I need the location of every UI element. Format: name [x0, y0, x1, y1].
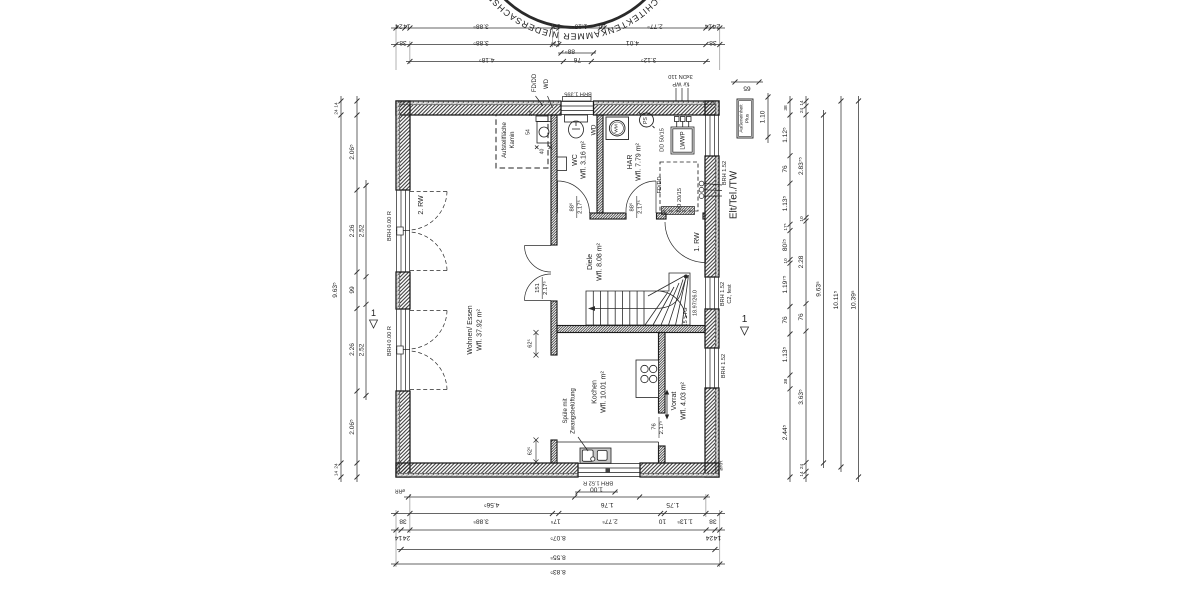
doors [410, 181, 706, 390]
dim chain right R5 [858, 96, 860, 482]
svg-text:24: 24 [712, 23, 720, 30]
svg-text:Kamin: Kamin [510, 131, 516, 148]
svg-text:BRH 1.52: BRH 1.52 [720, 282, 726, 306]
label door WC 88.5/2.17 [569, 200, 584, 214]
svg-text:24: 24 [334, 109, 340, 115]
svg-text:17⁵: 17⁵ [550, 39, 560, 46]
svg-text:18.97/26.0: 18.97/26.0 [693, 290, 699, 316]
svg-text:Plus: Plus [745, 113, 751, 123]
labels bottom B2 [399, 518, 717, 525]
svg-text:BRH 1.52 R: BRH 1.52 R [583, 480, 613, 486]
svg-text:76: 76 [573, 56, 581, 63]
stamp circle Architektenkammer [468, 0, 682, 42]
svg-text:WD: WD [591, 124, 598, 135]
stairs [586, 273, 690, 325]
svg-text:Spüle mit: Spüle mit [563, 398, 569, 423]
svg-text:38: 38 [709, 518, 717, 525]
Elt/Tel/TW wall sleeves [699, 181, 722, 198]
svg-text:14: 14 [334, 102, 340, 108]
walking line with arrow [591, 279, 686, 309]
svg-text:Vorrat: Vorrat [671, 392, 678, 411]
labels top row A [395, 23, 720, 30]
window right B C2 fest [705, 277, 719, 309]
svg-text:PS: PS [643, 117, 649, 124]
door HAR 88.5 [626, 181, 656, 213]
section marker right [741, 314, 749, 335]
dim chain top row B [391, 44, 725, 46]
svg-text:3.12⁵: 3.12⁵ [641, 56, 657, 63]
svg-text:88⁵: 88⁵ [569, 202, 576, 211]
svg-text:76: 76 [798, 313, 805, 321]
svg-text:1.19⁷⁵: 1.19⁷⁵ [782, 275, 789, 293]
svg-text:1. RW: 1. RW [694, 232, 701, 252]
kitchen 62.5 stub dims [534, 330, 539, 465]
svg-text:4.01: 4.01 [626, 39, 639, 46]
svg-text:4.56⁵: 4.56⁵ [484, 501, 500, 508]
dim chain left L2 [356, 96, 358, 482]
label door HAR 88.5/2.17 [629, 200, 644, 214]
room labels [370, 73, 751, 494]
dim chain bottom B2 [391, 513, 725, 515]
svg-text:15 STG: 15 STG [683, 308, 689, 327]
labels bottom B3 [395, 534, 722, 541]
svg-text:Außeneinheit: Außeneinheit [739, 104, 745, 133]
svg-text:Wfl. 3.16 m²: Wfl. 3.16 m² [581, 140, 588, 178]
svg-text:C2, fest: C2, fest [727, 284, 733, 304]
svg-text:1.10: 1.10 [760, 110, 767, 123]
extension guide lines bottom [396, 494, 720, 567]
svg-text:3.88⁵: 3.88⁵ [473, 23, 489, 30]
svg-text:Wfl. 8.08 m²: Wfl. 8.08 m² [597, 242, 604, 280]
svg-text:38: 38 [399, 518, 407, 525]
outer wall right [705, 101, 719, 477]
labels right R2 [798, 100, 805, 477]
svg-text:14: 14 [705, 23, 713, 30]
svg-text:24: 24 [799, 464, 805, 470]
svg-text:14: 14 [395, 534, 403, 541]
svg-text:10: 10 [598, 23, 606, 30]
svg-text:24: 24 [334, 463, 340, 469]
straight treads [593, 291, 644, 325]
svg-text:2.44⁵: 2.44⁵ [782, 424, 789, 440]
svg-text:38: 38 [783, 379, 789, 385]
svg-text:38: 38 [783, 105, 789, 111]
svg-text:2.26: 2.26 [349, 224, 356, 237]
window right C Vorrat [705, 348, 719, 388]
labels left L2 [349, 144, 356, 435]
svg-text:2.26: 2.26 [349, 343, 356, 356]
WC toilet [565, 115, 588, 138]
interior wall W1 Wohnen/Diele [551, 115, 557, 463]
Aussenheit Plus box [737, 99, 753, 138]
svg-text:17⁵: 17⁵ [783, 223, 789, 230]
svg-text:Wfl. 10.01 m²: Wfl. 10.01 m² [601, 371, 608, 413]
3xDN110 leader lines [676, 88, 688, 101]
svg-text:1.13⁵: 1.13⁵ [782, 195, 789, 211]
svg-text:38: 38 [399, 39, 407, 46]
svg-text:2.17⁵: 2.17⁵ [577, 200, 584, 214]
svg-text:40: 40 [540, 149, 546, 155]
svg-text:DO 20/15: DO 20/15 [677, 188, 683, 212]
svg-text:10: 10 [783, 258, 789, 264]
cooktop [636, 360, 659, 398]
Vorrat door arrow [665, 390, 669, 420]
svg-text:10: 10 [799, 216, 805, 222]
svg-text:Wfl. 7.79 m²: Wfl. 7.79 m² [636, 142, 643, 180]
svg-text:BRH 1.395: BRH 1.395 [564, 91, 591, 97]
svg-text:99: 99 [349, 286, 356, 294]
dim 1.10 vertical [767, 93, 769, 143]
svg-text:WM: WM [614, 124, 620, 133]
winder treads [645, 275, 689, 325]
dim chain bottom B1 [404, 496, 710, 498]
svg-text:14: 14 [799, 100, 805, 106]
dimension labels [332, 23, 858, 576]
svg-text:Zwangsbelüftung: Zwangsbelüftung [571, 388, 577, 434]
fixtures [496, 88, 753, 473]
svg-text:151: 151 [535, 283, 541, 293]
svg-text:⌀RR: ⌀RR [719, 460, 725, 471]
Kamin flue block [536, 116, 548, 122]
svg-text:2.52: 2.52 [359, 343, 366, 356]
svg-text:24: 24 [403, 534, 411, 541]
svg-text:1.13⁵: 1.13⁵ [782, 346, 789, 362]
PS shaft [639, 112, 655, 128]
washing machine WM [606, 117, 629, 140]
svg-text:BRH 1.52: BRH 1.52 [721, 354, 727, 378]
svg-text:Elt/Tel./TW: Elt/Tel./TW [729, 170, 740, 219]
svg-text:LWWP: LWWP [681, 131, 687, 149]
dim chain bottom B4 [397, 549, 719, 551]
svg-text:2.17⁵: 2.17⁵ [542, 281, 549, 295]
dim chain bottom B3 [391, 529, 725, 531]
door label fraction bars [542, 196, 659, 438]
dim mini window 88.5 [558, 52, 596, 54]
label door Wohnen 151/2.17 [535, 281, 549, 295]
svg-text:1.13⁵: 1.13⁵ [677, 518, 693, 525]
dim mini 65 [731, 81, 763, 83]
svg-text:62⁵: 62⁵ [527, 447, 534, 456]
extension guide lines [396, 24, 720, 70]
svg-text:1.13⁵: 1.13⁵ [572, 23, 588, 30]
svg-text:2.83⁷⁵: 2.83⁷⁵ [798, 157, 805, 175]
dim chain left L3 [365, 180, 367, 400]
svg-text:3.88⁵: 3.88⁵ [473, 39, 489, 46]
LWWP unit [671, 117, 694, 155]
interior wall W3 WC/HAR [597, 115, 603, 213]
walls [396, 97, 719, 478]
WC wall box [557, 157, 567, 171]
svg-text:3.88⁵: 3.88⁵ [473, 518, 489, 525]
svg-text:38: 38 [709, 39, 717, 46]
outer wall top [396, 101, 719, 115]
svg-text:3.63⁵: 3.63⁵ [798, 389, 805, 405]
svg-text:BRH 0.00 R: BRH 0.00 R [387, 326, 393, 356]
window right A Elt/Tel [705, 115, 719, 156]
door Wohnen/Diele double 151 [525, 246, 552, 301]
svg-text:BRH 1.52: BRH 1.52 [722, 161, 728, 185]
labels left L3 [359, 224, 366, 356]
svg-text:24: 24 [706, 534, 714, 541]
dimensions right [788, 96, 862, 482]
svg-text:2.06⁵: 2.06⁵ [349, 144, 356, 160]
svg-text:10: 10 [658, 518, 666, 525]
svg-text:DD 50/15: DD 50/15 [660, 128, 666, 152]
svg-text:17⁵: 17⁵ [550, 23, 560, 30]
dim chain left L1 [340, 96, 342, 482]
svg-text:Kochen: Kochen [592, 380, 599, 404]
dim mini 1.00 [575, 491, 618, 493]
svg-text:24: 24 [395, 23, 403, 30]
svg-text:1.75: 1.75 [666, 501, 679, 508]
svg-text:88⁵: 88⁵ [629, 202, 636, 211]
svg-text:14: 14 [799, 471, 805, 477]
svg-text:2.28: 2.28 [798, 255, 805, 268]
Kamin area dashed rect [496, 115, 548, 168]
HAR floor opening dashed DO 20/15 [660, 162, 698, 215]
window top WC BRH 1.395 [561, 97, 594, 116]
winder inner arc [660, 291, 687, 318]
svg-text:10.39⁵: 10.39⁵ [851, 290, 858, 310]
FD/DD WD leader lines top [536, 96, 553, 108]
svg-text:2.17⁵: 2.17⁵ [637, 200, 644, 214]
svg-text:Wohnen/ Essen: Wohnen/ Essen [467, 305, 474, 354]
dim chain bottom B5 [391, 563, 725, 565]
svg-text:9.63⁵: 9.63⁵ [332, 282, 339, 298]
svg-text:2.06⁵: 2.06⁵ [349, 419, 356, 435]
dim chain right R3 [823, 110, 825, 468]
interior wall W2 below stairs [557, 326, 705, 333]
svg-text:Diele: Diele [587, 254, 594, 270]
svg-text:2. RW: 2. RW [418, 195, 425, 215]
dim chain right R4 [840, 96, 842, 472]
svg-text:WD: WD [544, 78, 550, 89]
svg-text:76: 76 [652, 423, 658, 429]
svg-text:3xDN 110: 3xDN 110 [668, 73, 692, 79]
svg-text:Aufstellfläche: Aufstellfläche [502, 121, 508, 157]
svg-text:65: 65 [743, 85, 751, 92]
svg-text:62⁵: 62⁵ [527, 339, 534, 348]
svg-text:9.63⁵: 9.63⁵ [816, 281, 823, 297]
svg-text:1.76: 1.76 [600, 501, 613, 508]
svg-text:14: 14 [713, 534, 721, 541]
stair outline [586, 273, 690, 325]
window left 2 (terrace door) [396, 309, 410, 391]
door left terrace 2 dashed french doors [410, 311, 447, 390]
svg-text:Wfl. 4.03 m²: Wfl. 4.03 m² [681, 381, 688, 419]
dim chain right R1 [789, 96, 791, 482]
dimensions top [391, 24, 771, 143]
outer wall bottom [396, 463, 719, 477]
dim chain top row A [391, 27, 725, 29]
svg-text:80²⁵: 80²⁵ [782, 239, 789, 252]
labels top row C [479, 48, 657, 64]
svg-text:2.77⁵: 2.77⁵ [602, 518, 618, 525]
svg-text:14: 14 [403, 23, 411, 30]
svg-text:Wfl. 37.92 m²: Wfl. 37.92 m² [477, 309, 484, 351]
door 1.RW [665, 222, 706, 263]
svg-text:für WP: für WP [672, 81, 689, 87]
svg-text:⌀RR: ⌀RR [394, 488, 405, 494]
svg-text:24: 24 [799, 108, 805, 114]
svg-text:1.00: 1.00 [590, 486, 603, 493]
dimensions left [339, 96, 369, 482]
Kamin block [535, 122, 552, 150]
svg-text:1: 1 [371, 308, 376, 318]
svg-text:88⁵: 88⁵ [565, 48, 575, 55]
door WC 88.5 [558, 181, 590, 213]
interior wall W4 south of WC/HAR [590, 213, 705, 219]
svg-text:14: 14 [334, 471, 340, 477]
outer wall left [396, 101, 410, 477]
svg-text:8.55⁵: 8.55⁵ [550, 554, 566, 561]
kitchen sink [557, 442, 659, 463]
svg-text:20: 20 [528, 111, 533, 117]
labels right R1 [782, 105, 789, 440]
window bottom kitchen BRH 1.52 R [578, 463, 640, 477]
door left terrace 1 dashed french doors [410, 192, 447, 271]
svg-text:76: 76 [782, 165, 789, 173]
svg-text:17⁵: 17⁵ [550, 518, 560, 525]
labels left L1 [332, 102, 340, 476]
dim chain right R2 [805, 96, 807, 482]
labels bottom B1 [484, 486, 680, 509]
dim chain top row C [406, 61, 710, 63]
interior wall W5 Kochen/Vorrat [659, 333, 666, 464]
svg-text:10.11⁵: 10.11⁵ [833, 290, 840, 309]
svg-text:HAR: HAR [627, 155, 634, 170]
svg-text:WC: WC [572, 154, 579, 166]
svg-text:54: 54 [526, 129, 532, 135]
svg-text:2.52: 2.52 [359, 224, 366, 237]
svg-text:BRH 0.00 R: BRH 0.00 R [387, 211, 393, 241]
section marker left [370, 308, 378, 328]
svg-text:76: 76 [782, 316, 789, 324]
dimensions bottom [391, 490, 725, 568]
window left 1 (terrace door 2.RW) [396, 190, 410, 272]
Spuele leader line [578, 437, 588, 451]
svg-text:2.77⁵: 2.77⁵ [647, 23, 663, 30]
svg-text:FD/DD: FD/DD [532, 73, 538, 92]
svg-text:4.18⁵: 4.18⁵ [479, 56, 495, 63]
label door Vorrat 76/2.17 [652, 420, 666, 434]
svg-text:8.83⁵: 8.83⁵ [550, 568, 566, 575]
svg-text:8.07⁵: 8.07⁵ [550, 534, 566, 541]
labels top row B [399, 39, 717, 46]
svg-text:1.12⁵: 1.12⁵ [782, 127, 789, 143]
svg-text:FD/DD: FD/DD [657, 176, 663, 193]
svg-text:1: 1 [742, 314, 748, 325]
